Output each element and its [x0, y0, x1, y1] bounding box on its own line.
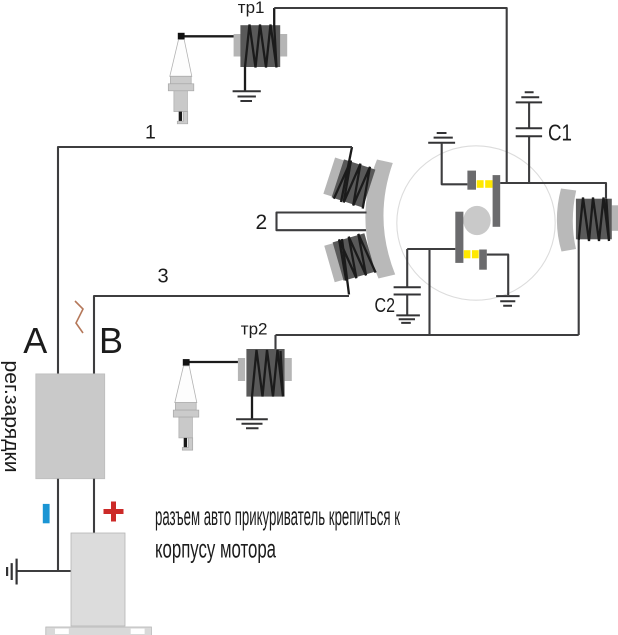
wire ground to upper breaker [442, 143, 468, 185]
wire regulator A output down [57, 479, 59, 571]
wire TP2 primary feed (bottom run) [276, 334, 579, 336]
wire HV coil bottom to TP2 line [578, 240, 580, 335]
svg-text:C2: C2 [375, 295, 396, 317]
cigarette lighter base flange [46, 627, 152, 635]
ignition coil TP2 [238, 358, 245, 381]
charge regulator box [36, 374, 105, 479]
flywheel rotor circle [397, 146, 555, 300]
wire junction down to TP2 line [428, 249, 430, 335]
wire TP1 primary feed (top, to upper breaker) [274, 8, 507, 183]
chassis ground (left, rotated) [7, 559, 17, 585]
ground TP1 [233, 91, 261, 101]
generator coil lower-left (winding 2-3) [324, 232, 376, 284]
svg-text:тр1: тр1 [238, 0, 265, 17]
lower breaker points: moving arm bar [455, 212, 463, 263]
spark plug 1 [168, 33, 194, 124]
cigarette lighter socket body [71, 533, 125, 626]
lower breaker points: fixed bar [479, 250, 487, 270]
svg-text:разъем авто прикуриватель креп: разъем авто прикуриватель крепиться к [155, 501, 400, 531]
wire lower breaker feed (from TP2 line and C2) [407, 248, 455, 250]
wire 3 (regulator B to lower generator coil) [94, 296, 349, 375]
spark plug 2 [173, 359, 199, 450]
cam (breaker cam on crankshaft) [463, 206, 490, 235]
ignition coil TP1 [234, 34, 241, 57]
stator pole shoe right [557, 189, 576, 252]
plus polarity mark (red) [104, 502, 124, 522]
wire down to TP2 [274, 335, 276, 351]
svg-text:2: 2 [256, 211, 268, 234]
svg-text:B: B [99, 320, 123, 361]
capacitor C1 [528, 102, 530, 183]
ground below C2 [396, 315, 420, 323]
upper breaker points: moving arm bar [493, 175, 501, 227]
stator pole shoe left [365, 160, 395, 279]
wire 2 fork (common tap of generator coils) [277, 213, 367, 231]
wire regulator B output down to lighter socket [93, 479, 95, 533]
inverted ground above C1 [516, 92, 542, 102]
spark gap squiggle (red) [75, 301, 83, 333]
svg-text:корпусу мотора: корпусу мотора [155, 534, 276, 564]
winding lead wire 3 to coil [342, 239, 349, 295]
magneto HV source coil right [612, 205, 618, 231]
inverted ground (upper breaker, left) [428, 133, 455, 143]
minus polarity mark (blue) [43, 504, 50, 523]
upper breaker contacts (yellow) [477, 180, 484, 188]
ground lower breaker [496, 296, 519, 306]
svg-text:тр2: тр2 [241, 320, 268, 339]
winding lead wire 1 to coil [341, 147, 352, 202]
wire spark plug 1 to TP1 [184, 35, 233, 37]
svg-text:1: 1 [145, 121, 156, 143]
upper breaker points: fixed bar [467, 171, 476, 190]
svg-text:C1: C1 [548, 119, 572, 145]
svg-text:рег.зарядки: рег.зарядки [0, 361, 22, 473]
lower breaker contacts (yellow) [464, 250, 471, 258]
svg-text:A: A [23, 320, 47, 361]
generator coil upper-left (winding 1-2) [323, 156, 376, 209]
wire spark plug 2 to TP2 [189, 361, 238, 363]
capacitor C2 [406, 249, 408, 315]
wire 1 (regulator A to upper generator coil) [58, 147, 352, 374]
wire to chassis ground [17, 570, 73, 572]
svg-text:3: 3 [158, 265, 169, 287]
ground TP2 [236, 419, 268, 428]
wire upper breaker to HV coil / C1 / TP1 [500, 183, 606, 199]
wire lower breaker to ground [487, 255, 508, 295]
